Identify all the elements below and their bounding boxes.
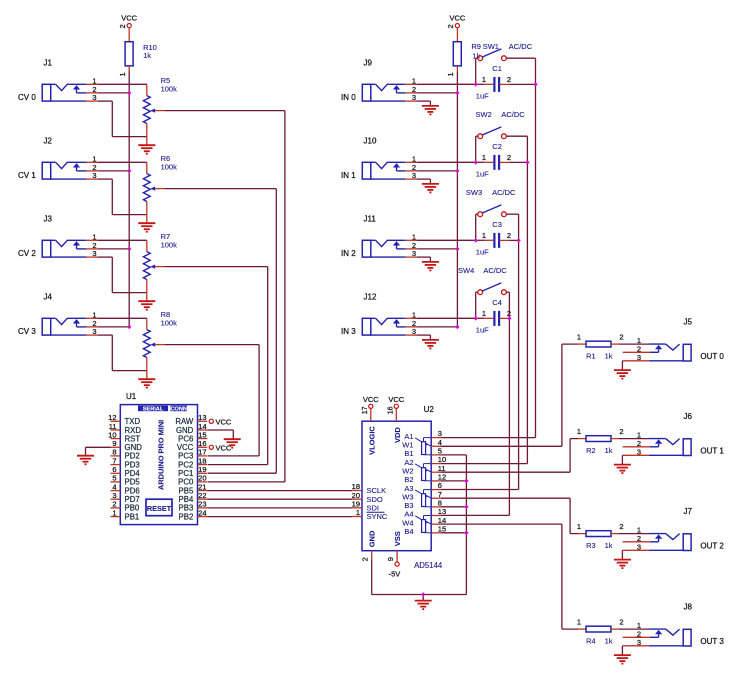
connector J3 (CV 2 input jack) (42, 240, 86, 257)
svg-text:100k: 100k (161, 163, 178, 172)
svg-text:PC0: PC0 (178, 478, 194, 487)
ground J8 (614, 655, 631, 664)
label IN 2 (341, 249, 356, 258)
label J3 (44, 215, 53, 224)
svg-text:13: 13 (438, 507, 446, 516)
label R6 value (161, 154, 178, 171)
pin numbers J11 (412, 232, 416, 258)
junction C3 pin2 (516, 238, 520, 242)
wire bias bus left (R10 to J4 pin2) (128, 72, 130, 327)
svg-text:B2: B2 (404, 475, 413, 484)
U2 pin 14 (W4) (402, 516, 446, 528)
svg-text:SDI: SDI (367, 503, 380, 512)
power VCC U2 pin16 (VDD) (387, 395, 404, 421)
wire U2 W3 to R3 (441, 498, 578, 533)
label OUT 1 (700, 447, 724, 456)
svg-text:2: 2 (619, 333, 623, 342)
wire J10 pin2 to bias bus (405, 170, 457, 172)
svg-text:J5: J5 (684, 318, 693, 327)
ground below R8 (138, 379, 155, 388)
power VCC (top left) (121, 13, 137, 27)
U2 pin 19 (SDI) (352, 499, 379, 512)
wire J3 pin3 to ground node (86, 257, 147, 293)
svg-text:J3: J3 (44, 215, 53, 224)
wire U1 GND pin14 to ground (207, 430, 233, 439)
svg-text:J2: J2 (44, 137, 53, 146)
ground J12 (422, 340, 439, 349)
ground U1 pin14 (224, 439, 241, 448)
pin numbers C1 (482, 75, 511, 84)
U2 pin 15 (B4) (404, 525, 446, 537)
svg-text:PC6: PC6 (178, 434, 193, 443)
svg-text:VCC: VCC (449, 13, 465, 22)
junction bias bus J9 (455, 91, 459, 95)
svg-text:VSS: VSS (393, 531, 402, 546)
wire J9 pin3 to ground (405, 101, 430, 106)
resistor R3 1k (578, 531, 619, 537)
label J7 (684, 507, 693, 516)
U2 pin 18 (SCLK) (352, 482, 386, 495)
svg-text:1k: 1k (143, 51, 151, 60)
label SW2 (476, 110, 526, 119)
svg-text:IN 2: IN 2 (341, 249, 356, 258)
potentiometer R5 100k (143, 96, 164, 145)
svg-text:C2: C2 (492, 142, 502, 151)
power VCC U2 pin17 (VLOGIC) (362, 395, 379, 421)
U1 pin 16 (VCC) right stub (177, 439, 207, 452)
label R1 value (586, 351, 613, 360)
label J8 (684, 603, 693, 612)
svg-text:2: 2 (361, 557, 370, 561)
power VCC U1 pin13 (RAW) (209, 417, 232, 426)
svg-text:1: 1 (482, 75, 486, 84)
svg-text:CV 0: CV 0 (18, 93, 36, 102)
svg-text:OUT 1: OUT 1 (700, 447, 724, 456)
switch SW1 (AC/DC) (476, 49, 536, 85)
junction B4 (464, 531, 468, 535)
svg-text:7: 7 (438, 490, 442, 499)
svg-text:1: 1 (577, 522, 581, 531)
resistor R4 1k (578, 626, 619, 632)
junction U2 ground (421, 592, 425, 596)
wire J10 pin3 to ground (405, 179, 430, 184)
wire J9 pin1 to C1 (405, 83, 493, 85)
connector J8 (OUT 3 jack) (649, 629, 691, 646)
wire J1 pin1 to R5 top (86, 84, 147, 95)
label R2 value (586, 446, 613, 455)
svg-text:2: 2 (507, 75, 511, 84)
wire U1 GND pin9 to ground (86, 447, 111, 455)
wire U1 pin 22 to U2 (207, 498, 352, 500)
potentiometer R8 100k (143, 330, 164, 379)
label IN 3 (341, 327, 356, 336)
pin numbers C2 (482, 153, 511, 162)
wire J1 pin2 to bias bus (86, 92, 129, 94)
svg-text:AC/DC: AC/DC (483, 266, 507, 275)
pin numbers J2 (92, 154, 96, 180)
svg-text:1: 1 (482, 309, 486, 318)
ground U1 pin9 (77, 456, 94, 465)
IC U2 AD5144 body (362, 421, 431, 551)
label AD5144 (414, 561, 443, 570)
svg-text:SCLK: SCLK (367, 486, 387, 495)
connector J2 (CV 1 input jack) (42, 162, 86, 179)
svg-text:2: 2 (446, 24, 455, 28)
svg-text:C3: C3 (492, 220, 502, 229)
label R7 value (161, 232, 178, 249)
wire J1 pin3 to ground node (86, 101, 147, 137)
label OUT 2 (700, 542, 724, 551)
label J12 (364, 293, 377, 302)
switch SW2 (AC/DC) (476, 127, 528, 162)
potentiometer R6 100k (143, 174, 164, 223)
svg-text:J12: J12 (364, 293, 377, 302)
junction bias bus J11 (455, 247, 459, 251)
svg-text:TXD: TXD (125, 417, 141, 426)
junction SW1 left / C1 pin1 (474, 82, 478, 86)
svg-text:R1: R1 (586, 351, 596, 360)
U2 internal potentiometer 3 (415, 490, 431, 507)
svg-text:12: 12 (108, 413, 116, 422)
svg-text:CV 2: CV 2 (18, 249, 36, 258)
pin numbers J9 (412, 76, 416, 102)
svg-text:1: 1 (118, 72, 127, 76)
svg-text:SYNC: SYNC (367, 512, 388, 521)
svg-text:IN 3: IN 3 (341, 327, 356, 336)
svg-text:IN 1: IN 1 (341, 171, 356, 180)
connector J7 (OUT 2 jack) (649, 534, 691, 551)
svg-text:16: 16 (387, 406, 394, 414)
U2 pin 8 (B3) (404, 499, 442, 511)
U1 pin 5 (PD5) left stub (111, 474, 141, 487)
wire J6 pin3 to ground (622, 455, 648, 464)
label R10 value (143, 43, 157, 60)
svg-text:24: 24 (198, 508, 206, 517)
wire C4 pin2 / SW4 to U2 A4 (441, 292, 509, 515)
svg-text:A4: A4 (404, 510, 413, 519)
svg-text:20: 20 (198, 474, 206, 483)
junction bias bus J4 (127, 325, 131, 329)
wire J2 pin3 to ground node (86, 179, 147, 215)
svg-text:R3: R3 (586, 541, 596, 550)
junction B3 (464, 505, 468, 509)
U2 pin 20 (SDO) (352, 491, 383, 504)
svg-text:SW2: SW2 (476, 110, 492, 119)
wire bias bus right (R9 to J12 pin2) (456, 72, 458, 327)
U2 pin9 VSS stub to -5V (386, 551, 400, 579)
U2 pin2 GND stub (361, 551, 372, 562)
pin numbers R1 (577, 333, 624, 342)
label CV 2 (18, 249, 36, 258)
svg-text:J1: J1 (44, 59, 53, 68)
label J9 (364, 59, 373, 68)
capacitor C1 1uF (494, 77, 509, 92)
wire J2 pin2 to bias bus (86, 170, 129, 172)
svg-text:13: 13 (198, 413, 206, 422)
svg-text:PD5: PD5 (125, 478, 141, 487)
svg-text:11: 11 (438, 464, 446, 473)
svg-text:J11: J11 (364, 215, 377, 224)
svg-text:2: 2 (619, 427, 623, 436)
ground below R5 (138, 145, 155, 154)
wire J4 pin1 to R8 top (86, 318, 147, 329)
svg-text:AD5144: AD5144 (414, 561, 443, 570)
wire C3 pin2 / SW3 to U2 A3 (441, 214, 519, 489)
svg-text:PB1: PB1 (125, 512, 140, 521)
svg-text:1: 1 (577, 333, 581, 342)
U1 pin 10 (RST) left stub (108, 430, 140, 443)
svg-text:1uF: 1uF (476, 92, 489, 101)
wire U1 pin 24 to U2 (207, 516, 352, 518)
connector J12 (IN 3 input jack) (362, 318, 405, 335)
U1 pin 7 (PD3) left stub (111, 456, 140, 469)
svg-text:1: 1 (356, 508, 360, 517)
wire U1 pin 23 to U2 (207, 507, 352, 509)
svg-text:1uF: 1uF (476, 248, 489, 257)
wire J9 pin2 to bias bus (405, 92, 457, 94)
U2 pin 3 (A1) (404, 429, 442, 441)
svg-text:3: 3 (438, 429, 442, 438)
svg-text:23: 23 (198, 500, 206, 509)
svg-text:B4: B4 (404, 527, 413, 536)
U2 internal potentiometer 4 (415, 516, 431, 533)
pin numbers J6 (637, 430, 641, 456)
ground J6 (614, 465, 631, 474)
U2 pin 5 (B1) (404, 447, 442, 459)
svg-text:PB2: PB2 (179, 512, 194, 521)
svg-text:W3: W3 (402, 492, 413, 501)
U2 internal potentiometer 1 (415, 438, 431, 455)
svg-text:PD3: PD3 (125, 460, 140, 469)
U1 pin 20 (PC0) right stub (178, 474, 207, 487)
svg-text:PC2: PC2 (178, 460, 193, 469)
wire C1 pin2 / SW1 to U2 A1 (441, 58, 536, 437)
U1 pin 11 (RXD) left stub (109, 422, 142, 435)
svg-text:CV 1: CV 1 (18, 171, 36, 180)
U2 pin 10 (A2) (404, 455, 446, 467)
wire U2 W4 to R4 (441, 524, 578, 629)
capacitor C2 1uF (494, 155, 509, 170)
U1 pin 13 (RAW) right stub (175, 413, 207, 426)
wire U2 W1 to R1 (441, 344, 578, 446)
U1 pin 1 (PB1) left stub (111, 508, 140, 521)
label R9 value (471, 42, 481, 60)
U1 pin 19 (PC1) right stub (178, 465, 207, 478)
label J2 (44, 137, 53, 146)
svg-text:PB0: PB0 (125, 504, 140, 513)
svg-text:1: 1 (577, 427, 581, 436)
wire U1 pin 21 to U2 (207, 490, 352, 492)
svg-text:J7: J7 (684, 507, 693, 516)
wire R4 to J8 (619, 628, 649, 630)
wire B1-B4 bus to ground (441, 455, 466, 595)
wire R8 wiper to U1 PC3 (pin 17) (165, 345, 260, 456)
svg-text:SW1: SW1 (483, 42, 499, 51)
junction C4 pin2 (507, 316, 511, 320)
svg-text:U2: U2 (424, 405, 435, 414)
wire J11 pin2 to bias bus (405, 248, 457, 250)
svg-text:VCC: VCC (121, 13, 137, 22)
label J1 (44, 59, 53, 68)
svg-text:2: 2 (619, 618, 623, 627)
svg-text:VCC: VCC (363, 395, 379, 404)
wire J11 pin3 to ground (405, 257, 430, 262)
svg-text:IN 0: IN 0 (341, 93, 356, 102)
wire R2 to J6 (619, 438, 649, 440)
U2 internal potentiometer 2 (415, 464, 431, 481)
wire J12 pin2 to bias bus (405, 326, 457, 328)
svg-text:1k: 1k (605, 446, 613, 455)
pin numbers J12 (412, 310, 416, 336)
svg-text:1k: 1k (605, 351, 613, 360)
svg-text:PB4: PB4 (179, 495, 194, 504)
pin numbers J8 (637, 621, 641, 647)
label IN 0 (341, 93, 356, 102)
svg-text:8: 8 (112, 448, 116, 457)
svg-text:17: 17 (198, 448, 206, 457)
U1 RESET box (146, 499, 172, 516)
svg-text:ARDUINO PRO MINI: ARDUINO PRO MINI (157, 420, 166, 490)
label U2 (424, 405, 435, 414)
svg-text:1k: 1k (605, 636, 613, 645)
pin numbers R2 (577, 427, 624, 436)
label CV 1 (18, 171, 36, 180)
pin numbers C3 (482, 231, 511, 240)
svg-text:VCC: VCC (216, 417, 232, 426)
svg-text:12: 12 (438, 473, 446, 482)
U2 pin 6 (A3) (404, 481, 442, 493)
label J4 (44, 293, 53, 302)
wire J12 pin3 to ground (405, 335, 430, 340)
pin numbers J4 (92, 310, 96, 336)
label IN 1 (341, 171, 356, 180)
U1 pin 23 (PB3) right stub (179, 500, 208, 513)
wire J6 pin2 stub (623, 446, 650, 448)
svg-text:J4: J4 (44, 293, 53, 302)
ground below R7 (138, 301, 155, 310)
wire J8 pin3 to ground (622, 646, 648, 655)
junction bias bus J10 (455, 169, 459, 173)
svg-text:RAW: RAW (175, 417, 194, 426)
wire J5 pin2 stub (623, 351, 650, 353)
pin numbers R4 (577, 618, 624, 627)
svg-text:5: 5 (438, 447, 442, 456)
U1 pin 3 (PD7) left stub (111, 491, 140, 504)
svg-text:1: 1 (482, 231, 486, 240)
label C4 value (476, 298, 502, 335)
wire U2 GND net (372, 559, 467, 600)
svg-text:2: 2 (112, 500, 116, 509)
ground U2 (415, 601, 432, 610)
ground J10 (422, 184, 439, 193)
wire C2 pin2 / SW2 to U2 A2 (441, 136, 527, 463)
wire J8 pin2 stub (623, 636, 650, 638)
wire J5 pin3 to ground (622, 361, 648, 370)
svg-text:VDD: VDD (393, 427, 402, 443)
wire J4 pin3 to ground node (86, 335, 147, 371)
junction bias bus J3 (127, 247, 131, 251)
IC U1 ARDUINO PRO MINI body (120, 405, 197, 525)
svg-text:A1: A1 (404, 432, 413, 441)
svg-text:R9: R9 (471, 42, 481, 51)
svg-text:R2: R2 (586, 446, 596, 455)
svg-text:R4: R4 (586, 636, 596, 645)
wire J7 pin3 to ground (622, 550, 648, 559)
svg-text:VCC: VCC (388, 395, 404, 404)
connector J4 (CV 3 input jack) (42, 318, 86, 335)
U1 pin 18 (PC2) right stub (178, 456, 207, 469)
power VCC (top right) (449, 13, 465, 27)
svg-text:2: 2 (507, 231, 511, 240)
junction SW4 left / C4 pin1 (474, 316, 478, 320)
power VCC U1 pin16 (209, 443, 232, 452)
svg-text:1: 1 (482, 153, 486, 162)
label J6 (684, 412, 693, 421)
label SW3 (466, 188, 516, 197)
U1 pin 21 (PB5) right stub (179, 482, 208, 495)
svg-text:PD2: PD2 (125, 452, 140, 461)
svg-text:PB3: PB3 (179, 504, 194, 513)
U1 pin 6 (PD4) left stub (111, 465, 141, 478)
label SW1 (483, 42, 533, 51)
svg-text:CV 3: CV 3 (18, 327, 36, 336)
label CV 3 (18, 327, 36, 336)
U1 pin 9 (GND) left stub (111, 439, 143, 452)
wire J12 pin1 to C4 (405, 317, 493, 319)
wire R5 wiper to U1 PC0 (pin 20) (165, 111, 285, 482)
svg-text:1k: 1k (605, 541, 613, 550)
svg-text:U1: U1 (126, 392, 137, 401)
ground J7 (614, 560, 631, 569)
svg-text:VCC: VCC (216, 443, 232, 452)
pin numbers J10 (412, 154, 416, 180)
svg-text:5: 5 (112, 474, 116, 483)
resistor R2 1k (578, 436, 619, 442)
label OUT 3 (700, 637, 724, 646)
svg-text:2: 2 (118, 24, 127, 28)
label J10 (364, 137, 377, 146)
svg-text:3: 3 (112, 491, 116, 500)
svg-text:CONN: CONN (170, 406, 186, 412)
ground J9 (422, 106, 439, 115)
svg-text:18: 18 (352, 482, 360, 491)
svg-text:100k: 100k (161, 85, 178, 94)
resistor R1 1k (578, 341, 619, 347)
wire J2 pin1 to R6 top (86, 162, 147, 173)
svg-text:OUT 2: OUT 2 (700, 542, 724, 551)
U1 pin 22 (PB4) right stub (179, 491, 208, 504)
svg-text:1: 1 (112, 508, 116, 517)
U2 pin 1 (SYNC) (352, 508, 388, 521)
svg-text:B1: B1 (404, 449, 413, 458)
junction C1 pin2 (533, 82, 537, 86)
ground below R6 (138, 223, 155, 232)
label C2 value (476, 142, 502, 179)
pin numbers C4 (482, 309, 511, 318)
label R4 value (586, 636, 613, 645)
U2 pin 12 (B2) (404, 473, 446, 485)
svg-text:W2: W2 (402, 466, 413, 475)
potentiometer R7 100k (143, 252, 164, 301)
U1 pin 17 (PC3) right stub (178, 448, 207, 461)
wire R6 wiper to U1 PC1 (pin 19) (165, 189, 277, 474)
svg-text:18: 18 (198, 456, 206, 465)
svg-text:OUT 3: OUT 3 (700, 637, 724, 646)
U2 pin 13 (A4) (404, 507, 446, 519)
wire J4 pin2 to bias bus (86, 326, 129, 328)
svg-text:2: 2 (507, 153, 511, 162)
capacitor C3 1uF (494, 233, 509, 248)
